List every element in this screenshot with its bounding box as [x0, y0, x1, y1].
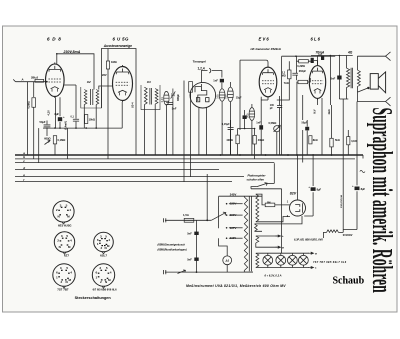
- svg-text:5kΩ: 5kΩ: [335, 139, 340, 142]
- svg-text:+: +: [308, 185, 310, 189]
- svg-text:5nF: 5nF: [331, 77, 336, 81]
- wire tap 220: [229, 203, 243, 205]
- pickup shield plate: [189, 82, 193, 93]
- wire coil500 leads: [251, 104, 253, 155]
- svg-text:schalter offen: schalter offen: [247, 178, 265, 182]
- wire under resistor 0,1M: [54, 144, 56, 155]
- resistor 40k: [253, 135, 256, 144]
- wire 6U5G bottom: [121, 102, 123, 128]
- wire drop x67.5: [67, 128, 69, 159]
- socket 7S7 7B7: [53, 264, 75, 286]
- svg-text:7S7 7B7 6E5 6SL7 6L6: 7S7 7B7 6E5 6SL7 6L6: [313, 261, 347, 264]
- coil bias winding: [256, 236, 259, 243]
- pickup head circle: [190, 82, 216, 108]
- resistor 5M: [265, 203, 275, 207]
- svg-text:5: 5: [105, 235, 107, 239]
- wire bus a end turn: [362, 155, 364, 159]
- svg-text:6 U 5G: 6 U 5G: [113, 37, 129, 42]
- capacitor 10uF osc: [243, 115, 247, 119]
- coil HV secondary: [256, 194, 259, 222]
- junction rail128 1: [54, 127, 56, 129]
- capacitor 50uF right: [305, 127, 309, 131]
- junction mains-5nF: [196, 271, 198, 273]
- svg-text:Plattenspieler-: Plattenspieler-: [248, 173, 267, 177]
- svg-text:2: 2: [61, 280, 63, 284]
- socket 6SL7: [94, 232, 114, 252]
- junction bus a 1: [220, 154, 222, 156]
- svg-text:380pF: 380pF: [177, 94, 180, 101]
- bus line d: [15, 169, 219, 171]
- wire platt feed: [273, 163, 275, 183]
- svg-text:1: 1: [56, 276, 58, 280]
- svg-text:4: 4: [108, 238, 110, 242]
- junction mains riser: [206, 219, 208, 221]
- wire mains bottom: [165, 271, 253, 273]
- resistor 0,1M cathode: [53, 136, 56, 144]
- svg-text:360pF: 360pF: [299, 70, 307, 73]
- junction B+ corner: [56, 53, 58, 55]
- junction grid row: [295, 55, 297, 57]
- svg-text:Tonangel: Tonangel: [193, 60, 206, 64]
- wire 70mA rail: [311, 55, 353, 57]
- junction bus a 4: [287, 154, 289, 156]
- wire pickup pin drops: [199, 107, 207, 155]
- wire after hook: [212, 71, 222, 78]
- wire lamps top: [258, 252, 310, 254]
- svg-text:0,5MΩ: 0,5MΩ: [269, 121, 277, 125]
- capacitor 50uF: [44, 125, 51, 127]
- wire primary top: [244, 196, 253, 272]
- wire 5nF chain: [196, 220, 198, 272]
- svg-text:HF-Generator 452kHz: HF-Generator 452kHz: [251, 47, 282, 51]
- svg-text:0V/240V: 0V/240V: [343, 234, 353, 237]
- svg-text:+: +: [352, 184, 354, 188]
- svg-text:M: M: [68, 245, 71, 249]
- svg-text:6 L 6: 6 L 6: [311, 37, 321, 42]
- junction bus a 5: [296, 154, 298, 156]
- wire 1nF osc leads: [260, 97, 262, 155]
- wire x281.6 long drop: [281, 56, 283, 155]
- wire out pri bottom: [339, 88, 348, 100]
- wire EV6 anode drop: [261, 97, 268, 100]
- wire 1M stubs: [107, 49, 109, 159]
- svg-text:2: 2: [57, 238, 59, 242]
- svg-text:0,15µF: 0,15µF: [222, 123, 230, 126]
- motor M: [223, 256, 232, 265]
- wire grid2 to U2: [64, 84, 76, 86]
- svg-text:6,3P, 6/5, 6B6 6U5G, 6V6: 6,3P, 6/5, 6B6 6U5G, 6V6: [294, 238, 323, 241]
- resistor 5k right: [330, 138, 333, 147]
- bus line f: [15, 181, 232, 183]
- svg-text:N.V: N.V: [313, 109, 316, 113]
- svg-text:M: M: [315, 253, 317, 255]
- wire selector frame: [219, 196, 262, 228]
- coil 0,01: [164, 91, 169, 105]
- arrow winding a: [276, 235, 281, 237]
- fuse 1,5A: [184, 218, 194, 222]
- core U2: [91, 89, 93, 105]
- wire AVC drop: [33, 82, 35, 97]
- svg-text:Schaub: Schaub: [333, 275, 365, 286]
- wire choke link: [339, 226, 358, 232]
- IF transformer U3 can: [141, 85, 160, 110]
- svg-text:0,1M: 0,1M: [351, 140, 356, 143]
- junction bus a 7: [331, 154, 333, 156]
- wire mains riser: [206, 174, 208, 220]
- wire below 0,5M: [33, 107, 35, 159]
- capacitor 0,1uF: [73, 119, 79, 121]
- wire choke feed drop: [338, 56, 340, 100]
- wire U3 sec drop: [154, 104, 156, 155]
- potentiometer 0,5M: [274, 126, 281, 132]
- svg-text:5V/6,3V/0,3A: 5V/6,3V/0,3A: [340, 195, 343, 208]
- IF transformer U2 can: [81, 87, 102, 108]
- resistor 7A: [298, 80, 308, 83]
- svg-text:+: +: [63, 115, 65, 119]
- potentiometer hum arrow: [45, 140, 51, 145]
- bus line a: [15, 154, 363, 156]
- resistor 10k: [85, 115, 88, 124]
- resistor 0,2M: [299, 60, 309, 63]
- capacitor 5nF mid: [166, 103, 173, 105]
- svg-text:U3-4: U3-4: [130, 102, 134, 108]
- svg-text:U2: U2: [87, 80, 91, 84]
- svg-text:Meßinstrument UVA 821/3/1, Me: Meßinstrument UVA 821/3/1, Meßbereich 60…: [186, 284, 286, 288]
- wire tap 110: [229, 237, 243, 239]
- wire HV sec leads: [256, 194, 290, 222]
- svg-text:Steckerschaltungen: Steckerschaltungen: [75, 296, 112, 300]
- socket 6E5 6U5G: [53, 201, 74, 222]
- wire rect pin1: [262, 202, 290, 205]
- svg-text:8kΩ: 8kΩ: [313, 139, 318, 142]
- wire out sec bottom: [356, 87, 358, 93]
- lamp stubs: [268, 253, 304, 267]
- tube EV6: [259, 66, 277, 99]
- wire top frame 6U5G: [102, 49, 137, 156]
- junction bus a 6: [312, 154, 314, 156]
- resistor 28k6 grid: [35, 79, 44, 82]
- svg-text:4,2V: 4,2V: [47, 110, 51, 116]
- resistor 0,5M: [32, 98, 36, 108]
- capacitor 1nF pickup: [220, 79, 224, 83]
- wire speaker switch drop: [356, 92, 358, 101]
- svg-text:8µF: 8µF: [361, 187, 366, 191]
- svg-text:3: 3: [99, 266, 101, 270]
- svg-text:500: 500: [245, 113, 249, 118]
- svg-text:MΩ: MΩ: [282, 75, 286, 78]
- resistor 1M: [106, 61, 109, 69]
- switch selector arm: [211, 212, 226, 220]
- core power transformer: [249, 196, 251, 271]
- capacitor 5nF lower: [194, 258, 198, 261]
- contact 220: [226, 203, 228, 205]
- plug stub top: [164, 218, 166, 222]
- coil U2 primary: [84, 90, 87, 105]
- capacitor 5nF upper: [194, 232, 198, 235]
- wire grid row: [282, 55, 336, 57]
- wire speaker top: [357, 55, 385, 57]
- terminal Y bottom: [386, 97, 391, 106]
- wire choke left: [324, 232, 327, 238]
- core output transformer: [351, 68, 353, 89]
- capacitor 100pF: [277, 106, 282, 108]
- svg-text:2: 2: [56, 208, 58, 212]
- svg-text:1nF: 1nF: [256, 120, 261, 124]
- svg-text:50µF: 50µF: [302, 122, 308, 125]
- wire coil 0,01 drop: [165, 105, 167, 155]
- svg-text:600Ω: 600Ω: [44, 136, 50, 140]
- contact 150: [226, 214, 228, 216]
- junction rail 339: [339, 55, 341, 57]
- svg-text:6: 6: [96, 271, 98, 275]
- wire tap 150: [229, 214, 243, 216]
- wire out sec top: [356, 56, 358, 70]
- svg-text:000: 000: [224, 94, 228, 99]
- wire platt switch left: [251, 187, 257, 189]
- lamp 2: [276, 255, 286, 265]
- capacitor coupling: [311, 58, 314, 63]
- svg-text:4Ω: 4Ω: [347, 51, 353, 55]
- coil 100 right: [228, 87, 234, 101]
- junction bus a 2: [239, 154, 241, 156]
- capacitor 1nF osc: [259, 125, 263, 129]
- bus line e: [15, 176, 244, 178]
- svg-text:M: M: [282, 247, 284, 249]
- wire cap 0,1uF drop: [75, 85, 77, 128]
- svg-text:40kΩ: 40kΩ: [258, 138, 264, 142]
- svg-text:4: 4: [110, 271, 112, 275]
- junction osc rail b: [254, 128, 256, 130]
- wire EV6 left frame: [239, 60, 241, 130]
- wire 400ohm leads: [237, 129, 239, 156]
- wire long rail y128: [43, 127, 122, 129]
- svg-text:0,01: 0,01: [160, 97, 164, 103]
- wire x343 long: [342, 99, 344, 230]
- wire coil100R drop: [229, 102, 231, 155]
- svg-text:(6BW)Rundfunkanlagen): (6BW)Rundfunkanlagen): [158, 249, 187, 252]
- coil 500: [249, 108, 255, 121]
- wire x322 drop: [321, 98, 323, 155]
- wire rect out: [304, 156, 313, 216]
- wire lamps bottom: [258, 267, 310, 269]
- lamp 3: [288, 255, 298, 265]
- junction rail128 4: [85, 127, 87, 129]
- wire cathode drop: [55, 97, 57, 128]
- svg-text:50µF: 50µF: [40, 120, 46, 124]
- svg-text:(6BW)Gesamtgeräusch: (6BW)Gesamtgeräusch: [158, 243, 186, 246]
- wire speaker bottom: [358, 101, 386, 103]
- svg-text:6/7 6/5 6B6 6V6 6L6: 6/7 6/5 6B6 6V6 6L6: [93, 288, 117, 292]
- wire coil100R top: [229, 82, 231, 87]
- svg-text:6Z7: 6Z7: [64, 253, 69, 257]
- svg-text:3: 3: [60, 266, 62, 270]
- svg-text:M: M: [69, 278, 72, 282]
- svg-text:6E5 6U5G: 6E5 6U5G: [58, 224, 72, 228]
- bus line c: [15, 162, 274, 164]
- svg-text:82V: 82V: [290, 192, 297, 196]
- capacitor 8uF: [58, 117, 62, 121]
- svg-text:8µF: 8µF: [317, 188, 322, 192]
- wire pot drop: [276, 132, 278, 155]
- wire pickup cap to coil: [221, 83, 223, 89]
- contact 127: [226, 227, 228, 229]
- junction rail128 5: [95, 127, 97, 129]
- wire cap b drop: [356, 102, 358, 227]
- wire pickup top lead: [201, 71, 207, 83]
- junction antenna-grid: [46, 81, 48, 83]
- capacitor 8uF b: [355, 187, 360, 191]
- wire heater top: [256, 252, 258, 254]
- wire 360pF link: [296, 56, 298, 80]
- svg-text:2: 2: [100, 280, 102, 284]
- svg-text:E V 6: E V 6: [259, 37, 270, 42]
- wire 100pF drop: [279, 96, 281, 155]
- svg-text:M: M: [107, 244, 110, 248]
- arrow lamps top: [309, 252, 314, 254]
- coil output secondary: [357, 70, 360, 87]
- svg-text:240V: 240V: [230, 192, 237, 196]
- wire 6L6 anode up: [317, 56, 319, 66]
- wire osc cap drop: [244, 110, 246, 129]
- svg-text:1nF: 1nF: [213, 79, 218, 83]
- svg-text:26V: 26V: [102, 73, 107, 77]
- wire screen drop: [59, 97, 61, 128]
- wire x296.9 drop: [296, 82, 298, 155]
- terminal Y top: [386, 52, 391, 61]
- wire grid drop left: [27, 82, 29, 155]
- capacitor 0,15uF: [228, 128, 234, 130]
- capacitor 8uF a: [311, 187, 316, 191]
- svg-text:6 + 6,3V, 0,3 A: 6 + 6,3V, 0,3 A: [265, 274, 282, 278]
- svg-text:6 D 8: 6 D 8: [47, 37, 61, 42]
- wire mains top: [165, 219, 211, 221]
- svg-text:3: 3: [61, 234, 63, 238]
- connector hook: [209, 68, 211, 73]
- lamp 4: [299, 255, 309, 265]
- svg-text:d: d: [23, 166, 25, 170]
- coil mains primary: [244, 197, 247, 271]
- svg-text:0,1MΩ: 0,1MΩ: [58, 138, 66, 142]
- svg-text:3: 3: [100, 235, 102, 239]
- junction bus a 3: [265, 154, 267, 156]
- pickup inner detail: [195, 84, 209, 102]
- wire 50uF right leads: [306, 120, 308, 155]
- wire 6L6 bottom drop: [317, 98, 319, 105]
- switch speaker: [358, 87, 370, 92]
- svg-text:15µF: 15µF: [236, 96, 242, 99]
- wire anode B+ run: [57, 54, 94, 90]
- tube 6U5G: [113, 65, 133, 102]
- wire trimmer drop: [172, 101, 174, 155]
- svg-text:1: 1: [96, 276, 98, 280]
- wire motor leads: [219, 238, 228, 272]
- bus line b: [15, 158, 355, 160]
- rectifier tube 82V: [290, 200, 306, 216]
- wire U2 sec top: [99, 86, 113, 90]
- svg-text:6: 6: [97, 238, 99, 242]
- junction rail 330: [330, 55, 332, 57]
- svg-text:2: 2: [101, 246, 103, 250]
- wire drop x38.7: [38, 128, 40, 162]
- resistor 400: [236, 135, 239, 144]
- wire U2 sec bottom: [95, 105, 97, 129]
- wire platt out: [251, 189, 282, 253]
- capacitor 5nF output: [337, 76, 341, 80]
- arrow winding b: [276, 246, 281, 248]
- wire platt switch right: [267, 182, 275, 184]
- svg-text:10kΩ: 10kΩ: [89, 117, 95, 121]
- svg-text:400Ω: 400Ω: [226, 138, 232, 142]
- wire x302.7 drop: [302, 95, 304, 163]
- capacitor 360pF: [292, 73, 298, 75]
- wire 2,2M leads: [277, 61, 290, 100]
- svg-text:Aussteueranzeige: Aussteueranzeige: [103, 44, 132, 48]
- svg-text:8µF: 8µF: [55, 112, 60, 116]
- svg-text:28k,6: 28k,6: [31, 75, 38, 79]
- svg-text:(0,4mA): (0,4mA): [65, 121, 68, 130]
- coil output primary: [347, 68, 350, 87]
- wire bias leads: [256, 236, 278, 247]
- wire antenna lead: [13, 79, 47, 81]
- svg-text:4: 4: [70, 271, 72, 275]
- wire 50uF branch: [46, 121, 48, 137]
- junction osc rail a: [244, 128, 246, 130]
- svg-text:4: 4: [69, 208, 71, 212]
- svg-text:5nF: 5nF: [187, 257, 192, 261]
- wire rectifier plate feed: [296, 155, 298, 200]
- socket 6Z7: [54, 232, 74, 252]
- tube 6D8: [46, 62, 65, 98]
- svg-text:5nF: 5nF: [187, 232, 192, 236]
- svg-text:U3: U3: [147, 80, 151, 84]
- coil rectifier filament winding: [255, 224, 258, 231]
- svg-text:4: 4: [70, 238, 72, 242]
- wire osc mid rail: [238, 128, 255, 130]
- switch mains: [178, 270, 186, 274]
- coil U2 secondary: [96, 90, 99, 105]
- wire shield left: [183, 81, 185, 182]
- svg-text:100: 100: [215, 94, 219, 99]
- wire heater bottom: [256, 267, 258, 269]
- svg-text:5: 5: [106, 266, 108, 270]
- svg-text:5M: 5M: [267, 201, 270, 204]
- svg-text:7S7 7B7: 7S7 7B7: [57, 288, 69, 292]
- svg-text:5: 5: [66, 266, 68, 270]
- wire U3 pri drop: [143, 105, 145, 155]
- svg-text:0,5MΩ: 0,5MΩ: [28, 101, 31, 108]
- squiggle annotation: [360, 170, 365, 172]
- contact 110: [226, 237, 228, 239]
- wire 0,1M right leads: [347, 130, 349, 155]
- wire tap 127: [229, 227, 243, 229]
- coil U3 secondary: [155, 89, 158, 105]
- svg-text:6: 6: [56, 271, 58, 275]
- svg-text:7AΩ: 7AΩ: [284, 82, 289, 85]
- coil filter choke: [327, 230, 339, 233]
- wire out pri top: [346, 56, 348, 69]
- trimmer capacitor 380pF: [171, 89, 176, 102]
- resistor 0,1M right: [347, 137, 350, 145]
- svg-text:1,5A: 1,5A: [183, 213, 189, 217]
- capacitor 1nF grid: [321, 56, 324, 60]
- coil U3 primary: [144, 87, 147, 104]
- svg-text:0,2MΩ: 0,2MΩ: [297, 65, 305, 68]
- junction rail128 3: [75, 127, 77, 129]
- svg-text:A: A: [21, 78, 24, 82]
- svg-text:Supraphon mit amerik. Röhren: Supraphon mit amerik. Röhren: [366, 108, 398, 294]
- wire coil100L drop: [221, 101, 223, 155]
- wire screen drop 6L6: [329, 56, 331, 106]
